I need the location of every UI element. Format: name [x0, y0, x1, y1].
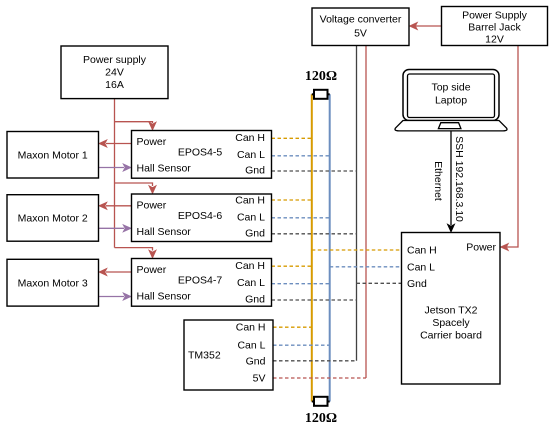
svg-text:120Ω: 120Ω [305, 69, 337, 84]
svg-text:Power Supply: Power Supply [462, 9, 528, 21]
svg-text:Voltage converter: Voltage converter [320, 14, 402, 26]
wire: barrel jack 12V down to Jetson Power [500, 46, 518, 251]
block: EPOS4-6 controller [132, 194, 272, 242]
wire: EPOS4-5 Gnd to gnd line [272, 170, 357, 172]
svg-text:Power supply: Power supply [83, 54, 147, 66]
node: CAN H bus (orange) [311, 94, 313, 401]
svg-text:Carrier board: Carrier board [420, 329, 482, 341]
svg-text:Can L: Can L [237, 340, 265, 352]
svg-text:Gnd: Gnd [246, 355, 266, 367]
svg-text:Can H: Can H [235, 260, 265, 272]
svg-text:120Ω: 120Ω [305, 411, 337, 426]
wire: Maxon Motor 3 hall sensor to EPOS4-7 [99, 293, 132, 301]
svg-text:Hall Sensor: Hall Sensor [137, 163, 192, 175]
wire: TM352 Gnd to gnd line [273, 360, 357, 362]
node: CAN L bus (blue) [329, 94, 331, 401]
svg-text:Gnd: Gnd [407, 278, 427, 290]
wire: EPOS4-5 power to Maxon Motor 1 [99, 140, 132, 148]
wire: EPOS4-6 Gnd to gnd line [272, 233, 357, 235]
wire: Maxon Motor 2 hall sensor to EPOS4-6 [99, 225, 132, 233]
wire: 24V bus from power supply [114, 99, 116, 248]
wire: barrel jack 12V to voltage converter [409, 22, 441, 30]
wire: TM352 Can H to bus [273, 326, 312, 328]
resistor R2 (bottom 120 ohm termination) [312, 397, 330, 406]
block: top side laptop [395, 70, 507, 131]
svg-text:Maxon Motor 2: Maxon Motor 2 [18, 213, 88, 225]
svg-text:Can H: Can H [407, 245, 437, 257]
block: EPOS4-5 controller [132, 131, 272, 179]
wire: EPOS4-7 Gnd to gnd line [272, 299, 357, 301]
svg-text:Can H: Can H [236, 322, 266, 334]
svg-text:Gnd: Gnd [245, 227, 265, 239]
wire: EPOS4-6 Can L to bus [272, 217, 330, 219]
svg-text:Jetson TX2: Jetson TX2 [425, 305, 478, 317]
block: Maxon Motor 2 [7, 195, 99, 242]
svg-text:Can H: Can H [235, 132, 265, 144]
wire: EPOS4-6 Can H to bus [272, 199, 312, 201]
resistor R1 (top 120 ohm termination) [312, 90, 330, 99]
svg-text:Gnd: Gnd [245, 165, 265, 177]
svg-text:24V: 24V [105, 66, 124, 78]
wire: ethernet laptop to Jetson [447, 131, 455, 232]
block: Maxon Motor 1 [7, 132, 99, 179]
svg-text:Laptop: Laptop [435, 95, 467, 107]
svg-text:Power: Power [137, 136, 167, 148]
wire: gnd line to Jetson [357, 282, 402, 284]
block: TM352 [184, 320, 273, 390]
svg-text:EPOS4-5: EPOS4-5 [178, 147, 223, 159]
wire: EPOS4-6 power to Maxon Motor 2 [99, 202, 132, 210]
label: SSH 192.168.3.10 [453, 136, 465, 222]
svg-text:Top side: Top side [431, 82, 470, 94]
svg-text:Hall Sensor: Hall Sensor [137, 226, 192, 238]
wire: Maxon Motor 1 hall sensor to EPOS4-5 [99, 164, 132, 172]
svg-text:Power: Power [466, 242, 496, 254]
block: Power supply 24V 16A [61, 46, 168, 99]
svg-text:5V: 5V [354, 27, 367, 39]
wire: Gnd vertical from voltage converter [356, 46, 358, 361]
wire: EPOS4-7 Can L to bus [272, 283, 330, 285]
wire: EPOS4-5 Can L to bus [272, 155, 330, 157]
svg-text:Gnd: Gnd [245, 294, 265, 306]
wire: 5V vertical from voltage converter [365, 46, 367, 379]
svg-text:Ethernet: Ethernet [432, 161, 444, 201]
block: Jetson TX2 Spacely Carrier board [402, 233, 501, 385]
wire: EPOS4-7 power to Maxon Motor 3 [99, 268, 132, 276]
label: 120 ohm (top) [305, 69, 337, 84]
wire: TM352 5V to 5V line [273, 377, 366, 379]
svg-text:Can H: Can H [235, 195, 265, 207]
svg-text:Can L: Can L [407, 261, 435, 273]
label: Ethernet [432, 161, 444, 201]
svg-text:Can L: Can L [237, 149, 265, 161]
wire: 24V branch to EPOS4-7 Power [115, 248, 157, 259]
label: 120 ohm (bottom) [305, 411, 337, 426]
wire: 24V branch to EPOS4-6 Power [115, 183, 157, 194]
svg-text:Power: Power [137, 264, 167, 276]
svg-text:Spacely: Spacely [432, 317, 470, 329]
block: Voltage converter 5V [312, 8, 409, 46]
wire: TM352 Can L to bus [273, 344, 330, 346]
svg-text:EPOS4-6: EPOS4-6 [178, 210, 223, 222]
svg-text:12V: 12V [485, 34, 504, 46]
svg-text:Can L: Can L [237, 277, 265, 289]
block: Maxon Motor 3 [7, 259, 99, 306]
svg-text:16A: 16A [105, 79, 124, 91]
svg-text:Maxon Motor 1: Maxon Motor 1 [18, 150, 88, 162]
wire: 24V branch to EPOS4-5 Power [115, 122, 157, 131]
wire: bus Can L to Jetson [330, 266, 402, 268]
wire: EPOS4-7 Can H to bus [272, 265, 312, 267]
svg-text:SSH 192.168.3.10: SSH 192.168.3.10 [453, 136, 465, 222]
svg-text:TM352: TM352 [188, 350, 221, 362]
wire: EPOS4-5 Can H to bus [272, 137, 312, 139]
svg-text:EPOS4-7: EPOS4-7 [178, 275, 223, 287]
svg-text:Hall Sensor: Hall Sensor [137, 291, 192, 303]
svg-text:Can L: Can L [237, 211, 265, 223]
svg-text:Power: Power [137, 200, 167, 212]
svg-text:Maxon Motor 3: Maxon Motor 3 [18, 277, 88, 289]
wire: bus Can H to Jetson [312, 249, 402, 251]
block: EPOS4-7 controller [132, 259, 272, 307]
svg-text:5V: 5V [253, 373, 266, 385]
svg-text:Barrel Jack: Barrel Jack [468, 22, 521, 34]
block: Power Supply Barrel Jack 12V [442, 7, 548, 46]
